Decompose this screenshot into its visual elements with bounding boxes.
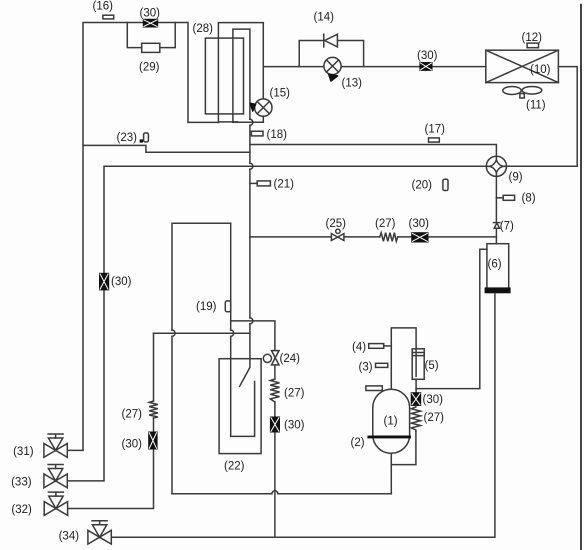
discharge loop compressor to separator: [391, 328, 416, 389]
svg-text:(29): (29): [139, 62, 160, 74]
wire H2 y333: [154, 332, 250, 334]
expansion valve 15: [250, 87, 290, 116]
wire (23) branch y145/y152: [83, 145, 250, 152]
sensor 8: [503, 195, 514, 200]
svg-text:(10): (10): [530, 64, 551, 76]
sensor 17: [429, 138, 440, 142]
svg-text:(19): (19): [196, 301, 217, 313]
svg-text:(3): (3): [359, 361, 373, 373]
sensor 21: [257, 181, 270, 186]
solenoid valve 30 on y237: [409, 218, 430, 242]
crankcase heater 2: [367, 436, 411, 439]
main line hop over wire C y166: [250, 163, 253, 169]
svg-text:(30): (30): [409, 218, 430, 230]
svg-text:(4): (4): [352, 341, 366, 353]
sensor 20: [443, 179, 448, 190]
service valve 32: [11, 492, 67, 516]
sensor 19: [225, 301, 230, 312]
check valve 14: [314, 12, 338, 47]
svg-text:(25): (25): [326, 218, 347, 230]
svg-text:(11): (11): [526, 100, 546, 112]
wire A y144.5 to four-way valve top: [250, 145, 497, 157]
svg-text:(27): (27): [122, 408, 143, 420]
sensor 18: [251, 131, 263, 136]
valve 13 arrow: [329, 74, 338, 81]
svg-text:(17): (17): [425, 123, 446, 135]
capillary 27 on y237: [380, 233, 398, 242]
wire V1 lower into tank tube with tube bottom and tube right edge: [231, 336, 255, 436]
frame border right: [580, 5, 582, 550]
svg-text:(20): (20): [412, 179, 433, 191]
svg-text:(14): (14): [314, 12, 335, 24]
svg-text:(27): (27): [284, 388, 305, 400]
svg-text:(23): (23): [117, 132, 138, 144]
hop arc y493.8 over x275: [272, 491, 278, 494]
wire x172 riser with hop over H2: [172, 223, 231, 494]
main line hop over H1 y321: [250, 318, 253, 324]
valve 13 circle: [324, 57, 362, 89]
compressor top pad: [366, 386, 382, 391]
wire x153 riser segments: [153, 333, 155, 432]
svg-text:(16): (16): [93, 1, 114, 13]
check valve 7: [493, 220, 514, 232]
solenoid valve 30 top-left: [140, 7, 161, 27]
main line x249.9 long middle segment: [249, 169, 251, 318]
wire V1 x230.7 upper: [230, 223, 232, 330]
wire separator to valve30: [415, 379, 417, 392]
sensor 12: [527, 43, 538, 48]
svg-text:(30): (30): [284, 420, 305, 432]
svg-text:(5): (5): [425, 360, 439, 372]
capillary 27 on x416: [411, 406, 420, 432]
wire C y166 with x104 riser and (33) stub: [67, 166, 486, 481]
svg-text:(32): (32): [11, 504, 32, 516]
heat exchanger 28 middle plate: [233, 29, 263, 122]
suction run y493.8 with hop at x275: [172, 493, 391, 495]
sensor 23: [117, 132, 149, 144]
sensor 16: [103, 15, 114, 19]
svg-text:(30): (30): [423, 394, 444, 406]
wire (32) stub and x153 riser: [67, 449, 153, 509]
svg-text:(12): (12): [522, 32, 543, 44]
svg-text:(34): (34): [59, 531, 80, 543]
svg-text:(30): (30): [122, 438, 143, 450]
svg-text:(24): (24): [280, 353, 301, 365]
solenoid valve 30 on hot gas line: [417, 50, 438, 71]
service valve 33: [11, 465, 67, 489]
valve 25: [326, 218, 347, 241]
capillary 27 on x275: [270, 379, 279, 402]
condenser loop right side: [507, 67, 578, 167]
wire y237 run segments: [250, 236, 497, 238]
main line x249.9 segment to wire C hop: [249, 125, 251, 163]
svg-text:(9): (9): [509, 172, 523, 184]
wire top-left loop (x83 riser, top run, drop into HX): [83, 23, 218, 451]
svg-text:(1): (1): [384, 415, 398, 427]
check valve 14 bypass loop: [299, 41, 363, 67]
wire x275 between zigzag and valve30: [274, 402, 276, 417]
heat exchanger 28 left plate: [205, 38, 243, 114]
sensor 8 stub: [496, 197, 503, 199]
hop arc x172 over y333: [172, 330, 175, 336]
service valve 31: [13, 434, 67, 458]
svg-text:(6): (6): [488, 259, 502, 271]
svg-text:(2): (2): [351, 437, 365, 449]
svg-text:(15): (15): [270, 87, 291, 99]
svg-text:(28): (28): [193, 23, 214, 35]
valve 15 arrow: [250, 103, 256, 111]
wire x275 lower to bottom run: [274, 432, 276, 537]
solenoid valve 30 on x275: [270, 417, 304, 432]
four-way valve 9: [486, 156, 522, 183]
svg-text:(8): (8): [522, 193, 536, 205]
svg-text:(27): (27): [424, 412, 445, 424]
sensor 4 with stub: [352, 341, 391, 353]
wire oil return to suction: [391, 431, 416, 464]
main line x249.9 lower segment into tank: [240, 324, 250, 387]
svg-text:(27): (27): [375, 218, 396, 230]
sensor 21 stub: [250, 182, 257, 184]
svg-text:(30): (30): [111, 276, 132, 288]
compressor suction bottom line: [390, 453, 392, 494]
svg-text:(22): (22): [224, 461, 245, 473]
svg-text:(21): (21): [274, 178, 295, 190]
wire (31) stub: [67, 449, 83, 451]
solenoid valve 30 on x104: [100, 273, 132, 290]
heat exchanger 28 outer shell: [218, 23, 263, 123]
svg-text:(30): (30): [140, 7, 161, 19]
wire x275 between valve24 and zigzag: [274, 365, 276, 379]
svg-text:(18): (18): [267, 129, 288, 141]
oil separator 5: [412, 349, 439, 380]
bottom run y537 to accumulator bottom: [111, 293, 495, 537]
condenser 10: [486, 50, 559, 82]
svg-text:(7): (7): [500, 220, 514, 232]
accumulator 6: [485, 244, 511, 294]
separator dip line: [415, 349, 417, 377]
svg-text:(30): (30): [417, 50, 438, 62]
hop arc V1 over y333: [231, 330, 234, 336]
valve 24: [263, 351, 300, 366]
hot gas line y66.6 segments: [263, 66, 486, 68]
solenoid valve 30 on x416: [411, 393, 443, 407]
solenoid valve 30 on x153.5: [122, 432, 158, 450]
filter bypass loop 29: [127, 23, 175, 48]
fan 11: [503, 87, 546, 112]
receiver tank 22: [219, 359, 261, 454]
svg-text:(33): (33): [11, 476, 32, 488]
service valve 34: [59, 521, 112, 544]
filter 29: [142, 43, 160, 52]
wire H1 y321 from V1 to x275 drop: [231, 321, 275, 351]
wire separator junction to accumulator port: [416, 249, 487, 388]
four-way valve 9 stem bottom to accumulator: [495, 176, 497, 243]
sensor 3: [376, 363, 388, 367]
main line hop over y122: [250, 119, 253, 125]
compressor 1: [373, 389, 410, 453]
capillary 27 on x153.5: [149, 401, 158, 418]
svg-text:(13): (13): [342, 78, 363, 90]
svg-text:(31): (31): [13, 446, 34, 458]
